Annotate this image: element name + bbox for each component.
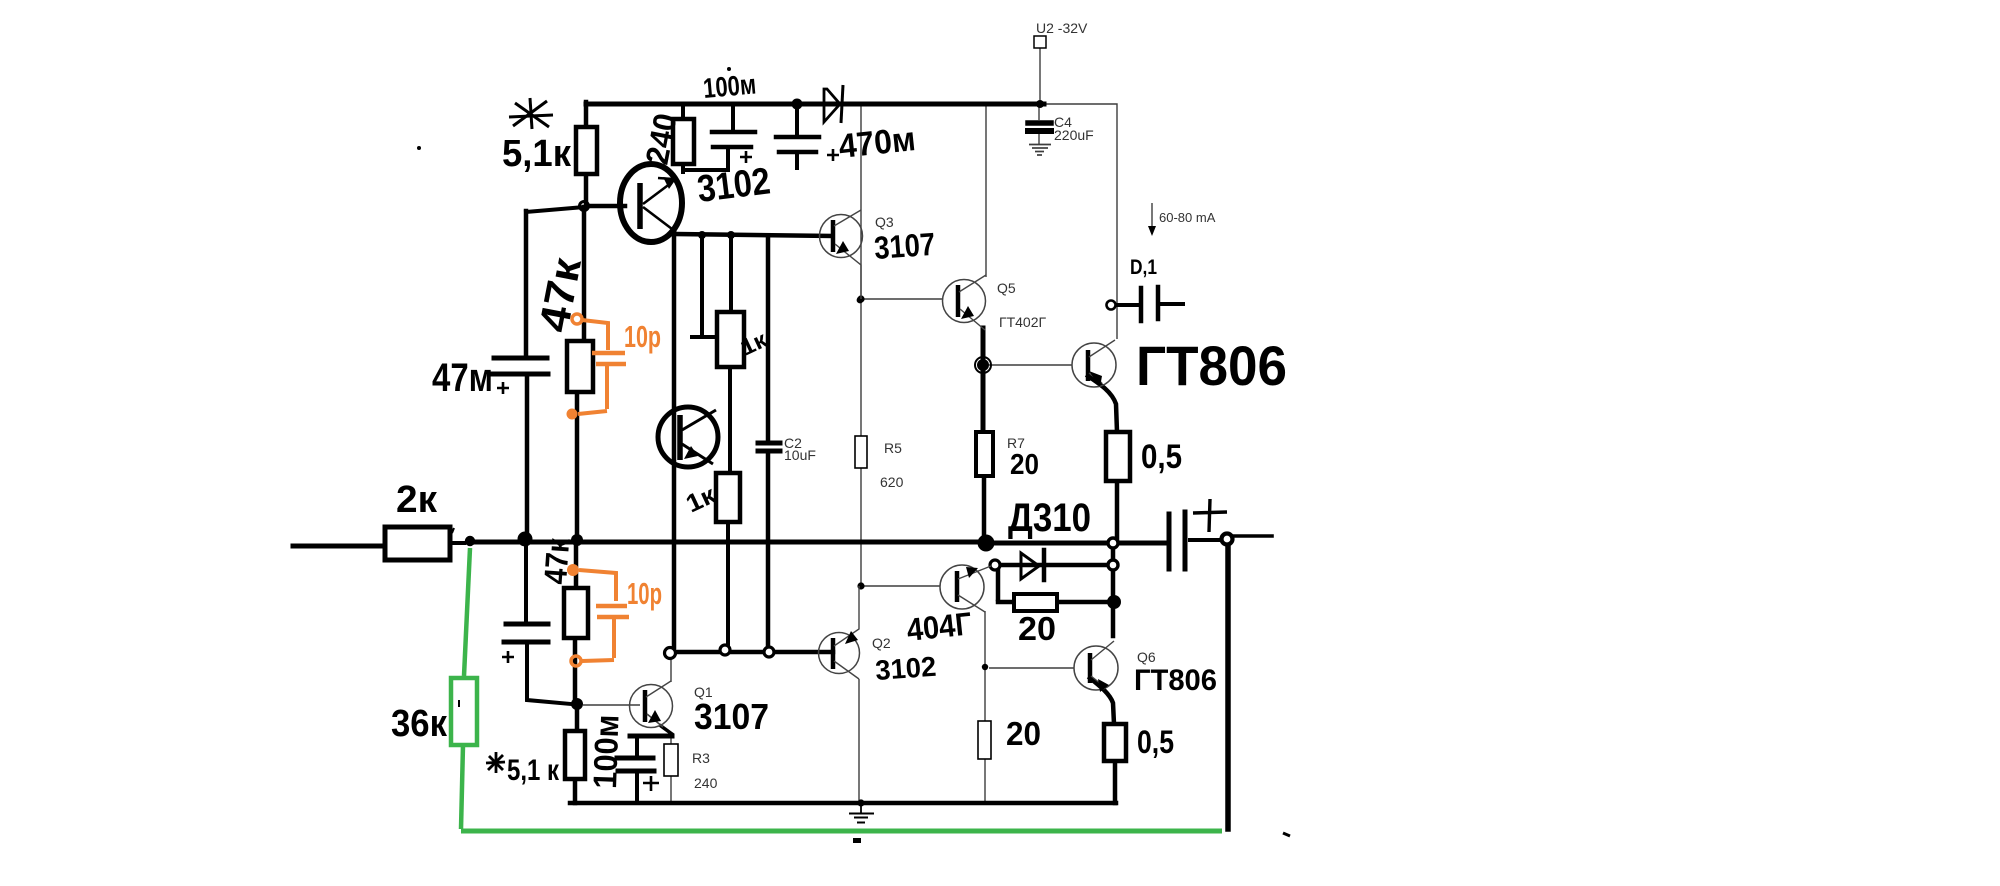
svg-text:ГТ402Г: ГТ402Г <box>999 314 1046 330</box>
svg-text:R3: R3 <box>692 750 710 766</box>
svg-text:ГТ806: ГТ806 <box>1136 334 1287 397</box>
svg-text:10uF: 10uF <box>784 447 816 463</box>
svg-text:20: 20 <box>1010 449 1039 481</box>
svg-text:3102: 3102 <box>695 160 773 211</box>
svg-text:U2 -32V: U2 -32V <box>1036 20 1088 36</box>
svg-text:470м: 470м <box>837 120 918 166</box>
svg-text:D,1: D,1 <box>1130 256 1157 279</box>
svg-text:2к: 2к <box>396 479 438 521</box>
svg-text:60-80 mA: 60-80 mA <box>1159 210 1216 225</box>
svg-text:240: 240 <box>694 775 718 791</box>
svg-text:10р: 10р <box>627 576 662 611</box>
svg-text:Д310: Д310 <box>1008 496 1091 540</box>
svg-text:Q3: Q3 <box>875 214 894 230</box>
svg-text:R5: R5 <box>884 440 902 456</box>
svg-text:3102: 3102 <box>874 651 937 686</box>
svg-text:100м: 100м <box>702 68 758 104</box>
svg-text:404Г: 404Г <box>905 605 973 648</box>
svg-text:20: 20 <box>1018 610 1056 647</box>
svg-text:3107: 3107 <box>694 696 769 737</box>
svg-text:Q5: Q5 <box>997 280 1016 296</box>
svg-text:Q6: Q6 <box>1137 649 1156 665</box>
svg-text:20: 20 <box>1006 715 1041 752</box>
svg-text:36к: 36к <box>391 703 448 745</box>
svg-text:3107: 3107 <box>873 226 936 266</box>
svg-text:47м: 47м <box>432 356 493 400</box>
svg-text:47к: 47к <box>537 536 576 585</box>
svg-text:620: 620 <box>880 474 904 490</box>
svg-text:0,5: 0,5 <box>1141 438 1182 476</box>
svg-text:100м: 100м <box>586 714 626 789</box>
svg-text:Q2: Q2 <box>872 635 891 651</box>
svg-text:220uF: 220uF <box>1054 127 1094 143</box>
svg-text:ГТ806: ГТ806 <box>1134 664 1217 697</box>
svg-text:5,1к: 5,1к <box>502 133 572 175</box>
svg-text:0,5: 0,5 <box>1137 724 1174 760</box>
svg-text:10р: 10р <box>624 319 661 354</box>
svg-text:5,1 к: 5,1 к <box>507 754 560 787</box>
